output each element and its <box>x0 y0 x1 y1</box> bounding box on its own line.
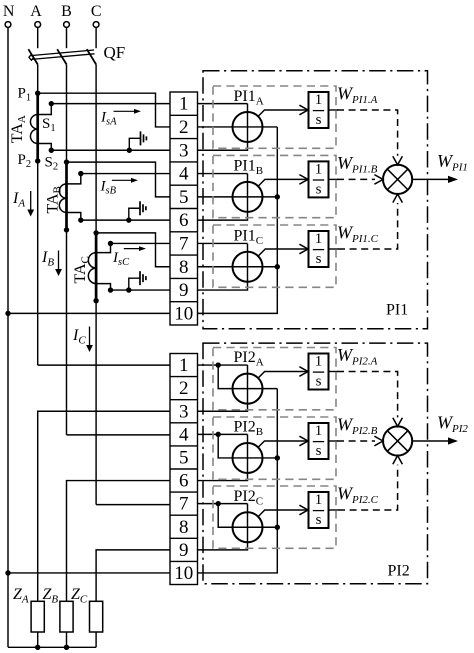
svg-text:A: A <box>30 3 42 20</box>
svg-text:3: 3 <box>179 401 189 422</box>
svg-text:1: 1 <box>179 355 189 376</box>
svg-text:1: 1 <box>315 162 323 178</box>
svg-text:10: 10 <box>174 303 193 324</box>
svg-text:1: 1 <box>315 492 323 508</box>
svg-text:s: s <box>316 112 322 128</box>
svg-text:PI1: PI1 <box>386 302 408 319</box>
svg-text:B: B <box>61 3 72 20</box>
svg-text:7: 7 <box>179 494 189 515</box>
svg-text:1: 1 <box>315 423 323 439</box>
svg-text:10: 10 <box>174 563 193 584</box>
svg-text:5: 5 <box>179 447 189 468</box>
svg-text:1: 1 <box>179 94 189 115</box>
svg-text:3: 3 <box>179 140 189 161</box>
svg-text:7: 7 <box>179 233 189 254</box>
svg-text:s: s <box>316 512 322 528</box>
svg-text:9: 9 <box>179 540 189 561</box>
svg-text:s: s <box>316 374 322 390</box>
svg-text:4: 4 <box>179 164 189 185</box>
svg-text:N: N <box>3 3 15 20</box>
svg-text:QF: QF <box>104 43 126 62</box>
svg-text:s: s <box>316 181 322 197</box>
svg-text:8: 8 <box>179 517 189 538</box>
svg-text:2: 2 <box>179 117 189 138</box>
svg-text:2: 2 <box>179 378 189 399</box>
svg-text:1: 1 <box>315 354 323 370</box>
svg-text:s: s <box>316 251 322 267</box>
svg-text:1: 1 <box>315 231 323 247</box>
svg-text:1: 1 <box>315 92 323 108</box>
svg-text:s: s <box>316 443 322 459</box>
svg-text:6: 6 <box>179 471 189 492</box>
svg-text:8: 8 <box>179 257 189 278</box>
svg-text:6: 6 <box>179 210 189 231</box>
svg-text:C: C <box>91 3 102 20</box>
svg-text:4: 4 <box>179 424 189 445</box>
svg-text:PI2: PI2 <box>388 562 410 579</box>
svg-text:9: 9 <box>179 280 189 301</box>
svg-text:5: 5 <box>179 187 189 208</box>
